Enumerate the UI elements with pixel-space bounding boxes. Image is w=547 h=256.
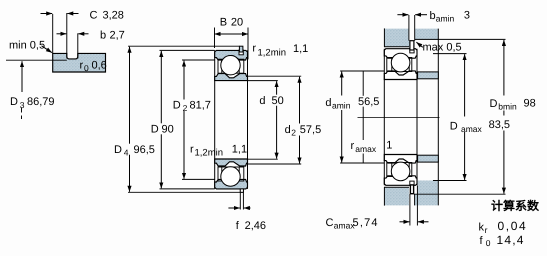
svg-text:D: D bbox=[450, 121, 458, 133]
svg-text:81,7: 81,7 bbox=[190, 100, 211, 112]
svg-text:b: b bbox=[430, 10, 436, 22]
svg-text:83,5: 83,5 bbox=[489, 119, 510, 131]
svg-text:D: D bbox=[10, 96, 18, 108]
svg-text:1: 1 bbox=[386, 140, 392, 152]
svg-text:r: r bbox=[252, 42, 256, 54]
svg-text:14,4: 14,4 bbox=[497, 233, 525, 247]
svg-text:amax: amax bbox=[355, 144, 377, 154]
svg-text:98: 98 bbox=[524, 98, 536, 110]
svg-text:min 0,5: min 0,5 bbox=[9, 40, 45, 52]
svg-text:bmin: bmin bbox=[498, 102, 517, 112]
svg-text:r: r bbox=[190, 143, 194, 155]
svg-text:d: d bbox=[259, 95, 265, 107]
svg-text:f: f bbox=[236, 220, 240, 232]
svg-text:d: d bbox=[285, 124, 291, 136]
svg-text:0: 0 bbox=[84, 63, 89, 73]
svg-text:B: B bbox=[220, 17, 227, 29]
svg-text:1,2min: 1,2min bbox=[195, 148, 224, 159]
svg-text:4: 4 bbox=[124, 147, 129, 157]
svg-text:2: 2 bbox=[183, 103, 188, 113]
svg-text:0: 0 bbox=[486, 238, 491, 248]
svg-text:b: b bbox=[100, 29, 106, 41]
svg-text:计算系数: 计算系数 bbox=[491, 199, 540, 213]
svg-text:96,5: 96,5 bbox=[134, 144, 155, 156]
svg-text:2,7: 2,7 bbox=[110, 29, 125, 41]
svg-text:D: D bbox=[490, 98, 498, 110]
svg-text:3: 3 bbox=[464, 10, 470, 22]
svg-text:20: 20 bbox=[231, 17, 243, 29]
svg-text:3: 3 bbox=[20, 100, 25, 110]
svg-text:amax: amax bbox=[461, 124, 483, 134]
svg-text:2: 2 bbox=[291, 127, 296, 137]
svg-text:2,46: 2,46 bbox=[245, 220, 266, 232]
svg-text:d: d bbox=[325, 97, 331, 109]
svg-text:C: C bbox=[90, 9, 98, 21]
svg-text:r: r bbox=[485, 225, 488, 235]
svg-text:1,2min: 1,2min bbox=[258, 48, 287, 59]
svg-text:86,79: 86,79 bbox=[27, 96, 55, 108]
svg-text:5,74: 5,74 bbox=[353, 217, 379, 229]
svg-text:r: r bbox=[351, 140, 355, 152]
svg-text:amin: amin bbox=[332, 101, 351, 111]
svg-text:56,5: 56,5 bbox=[358, 96, 379, 108]
svg-text:D: D bbox=[173, 100, 181, 112]
svg-text:1,1: 1,1 bbox=[232, 144, 247, 156]
svg-text:57,5: 57,5 bbox=[300, 124, 321, 136]
svg-text:C: C bbox=[326, 217, 334, 229]
svg-text:f: f bbox=[480, 235, 484, 247]
svg-text:k: k bbox=[479, 222, 485, 234]
svg-text:0,6: 0,6 bbox=[92, 60, 107, 72]
svg-text:amin: amin bbox=[436, 14, 455, 24]
svg-text:max 0,5: max 0,5 bbox=[423, 42, 462, 54]
svg-text:3,28: 3,28 bbox=[103, 9, 124, 21]
svg-text:D: D bbox=[114, 144, 122, 156]
svg-text:D: D bbox=[151, 123, 159, 135]
svg-text:90: 90 bbox=[162, 123, 174, 135]
svg-text:0,04: 0,04 bbox=[498, 219, 528, 233]
svg-text:r: r bbox=[80, 60, 84, 72]
svg-text:50: 50 bbox=[272, 95, 284, 107]
svg-text:1,1: 1,1 bbox=[293, 43, 308, 55]
